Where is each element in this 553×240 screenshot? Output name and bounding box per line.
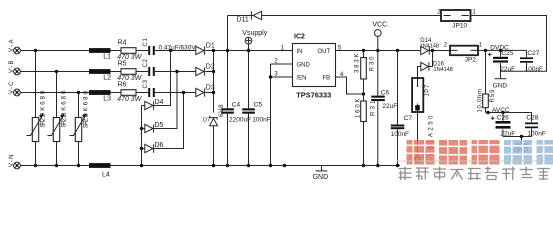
junction join / GND tick xyxy=(520,135,523,138)
junction EN pin riser xyxy=(269,75,272,78)
watermark hairline xyxy=(397,160,553,163)
zener diode D7 6V8 xyxy=(203,104,225,126)
pin 4 FB wire xyxy=(336,77,364,94)
junction row C / D6 riser xyxy=(182,91,185,94)
fuse G1 LS1A250 xyxy=(415,112,435,162)
wire row B after L2 xyxy=(111,71,122,73)
svg-text:V-C: V-C xyxy=(9,81,15,94)
pin 3 /EN line xyxy=(271,76,293,78)
capacitor C6 22uF xyxy=(371,36,397,165)
junction OUT / VCC / C6 xyxy=(376,49,379,52)
svg-text:2200uF: 2200uF xyxy=(229,117,251,124)
junction anode bus / D6 xyxy=(140,147,143,150)
wire varistor R3 riser xyxy=(78,93,80,166)
wire row B xyxy=(20,71,89,73)
capacitor C5 100nF xyxy=(242,101,271,123)
wire C5 riser with Vsupply xyxy=(248,44,250,166)
watermark row2 xyxy=(399,167,550,181)
svg-text:C5: C5 xyxy=(254,101,263,108)
svg-text:Vsupply: Vsupply xyxy=(242,30,267,37)
svg-text:C3: C3 xyxy=(143,79,149,88)
varistor R2 S20K680 xyxy=(48,90,68,142)
svg-text:22uF: 22uF xyxy=(500,66,515,73)
wire ground bus xyxy=(111,165,401,167)
junction ground bus / R31 xyxy=(362,164,365,167)
junction row B / D5 riser xyxy=(175,70,178,73)
watermark row1 xyxy=(407,140,553,165)
svg-text:V-A: V-A xyxy=(9,40,15,53)
svg-text:OUT: OUT xyxy=(318,49,331,55)
svg-text:D11: D11 xyxy=(237,16,249,23)
junction anode bus / D5 xyxy=(140,127,143,130)
junction ground bus / C6 xyxy=(376,164,379,167)
diode D5 xyxy=(142,122,164,133)
wire AVCC xyxy=(486,112,532,114)
svg-text:R4: R4 xyxy=(118,40,127,47)
junction anode bus / ground bus xyxy=(140,164,143,167)
connector pad V-N xyxy=(9,155,20,169)
svg-text:160K: 160K xyxy=(355,99,361,119)
wire row A D1 cathode to IC pin1 IN xyxy=(205,50,292,52)
svg-text:100nF: 100nF xyxy=(252,117,270,124)
junction bus / R1 xyxy=(34,164,37,167)
wire row C after C3 to D3 xyxy=(155,92,196,94)
svg-text:FB: FB xyxy=(323,76,331,82)
diode D3 xyxy=(196,84,215,96)
svg-text:6V8: 6V8 xyxy=(219,104,225,117)
power symbol VCC xyxy=(372,21,387,36)
wire row A after L1 xyxy=(111,50,122,52)
svg-text:1N4148: 1N4148 xyxy=(420,43,440,49)
svg-text:VCC: VCC xyxy=(372,21,387,28)
svg-text:JP7: JP7 xyxy=(425,84,431,97)
connector pad V-A xyxy=(9,40,20,54)
svg-text:1N4148: 1N4148 xyxy=(433,67,453,73)
junction AVCC / C26 xyxy=(501,111,504,114)
svg-text:D1: D1 xyxy=(206,42,215,49)
junction bus / R3 xyxy=(77,164,80,167)
connector pad V-B xyxy=(9,61,20,75)
svg-text:/EN: /EN xyxy=(297,76,307,82)
capacitor C7 100nF xyxy=(391,51,413,166)
wire row A after R4 xyxy=(136,50,148,52)
wire JP2 out / DVDC xyxy=(478,49,527,51)
svg-text:100nF: 100nF xyxy=(525,66,543,73)
capacitor C1 0.47uF/630V xyxy=(143,37,196,55)
svg-text:R59: R59 xyxy=(490,89,496,103)
resistor R4 470 3W xyxy=(117,40,143,61)
connector pad V-C xyxy=(9,81,20,96)
inductor L2 xyxy=(89,69,111,82)
junction cathode bus row C xyxy=(212,91,215,94)
capacitor C27 100nF xyxy=(520,50,543,73)
junction row A / C4 riser xyxy=(226,49,229,52)
svg-text:C1: C1 xyxy=(143,37,149,46)
wire row C xyxy=(20,92,89,94)
svg-text:L3: L3 xyxy=(103,96,111,103)
resistor R30 383K xyxy=(355,51,376,102)
svg-text:22uF: 22uF xyxy=(382,103,397,110)
svg-text:470 3W: 470 3W xyxy=(117,96,143,103)
svg-text:AVCC: AVCC xyxy=(492,107,510,114)
svg-text:C28: C28 xyxy=(526,114,538,121)
svg-text:C2: C2 xyxy=(143,58,149,67)
wire row B D2 cathode to bus xyxy=(205,71,213,73)
ground symbol GND center xyxy=(313,166,329,181)
capacitor C25 22uF xyxy=(488,50,515,78)
varistor R3 S20K680 xyxy=(70,90,90,141)
svg-text:R31: R31 xyxy=(370,100,376,116)
jumper JP2 xyxy=(444,42,483,63)
resistor R31 160K xyxy=(355,99,376,166)
junction row C / R3 xyxy=(77,91,80,94)
junction row A / R1 xyxy=(34,49,37,52)
junction row A / D4 riser xyxy=(169,49,172,52)
wire top rail to JP10 xyxy=(228,15,442,17)
diode D14 1N4148 xyxy=(420,38,450,55)
inductor L4 xyxy=(89,163,111,178)
junction R59 / AVCC xyxy=(486,111,489,114)
svg-text:JP10: JP10 xyxy=(452,23,467,30)
svg-text:10.0hm: 10.0hm xyxy=(478,89,484,113)
junction row A / C5 riser xyxy=(247,49,250,52)
svg-text:GND: GND xyxy=(297,62,311,68)
inductor L1 xyxy=(89,48,111,61)
jumper JP10 xyxy=(437,10,476,30)
svg-text:TPS76333: TPS76333 xyxy=(296,90,331,99)
wire row C after R6 xyxy=(136,92,148,94)
wire C4 riser with top rail xyxy=(227,16,229,166)
wire cathode bus Vsupply xyxy=(213,51,215,166)
svg-text:C4: C4 xyxy=(232,101,241,108)
svg-text:IC2: IC2 xyxy=(294,34,305,41)
svg-text:R5: R5 xyxy=(118,61,127,68)
junction cathode bus row B xyxy=(212,70,215,73)
wire row C D3 cathode to bus xyxy=(205,92,213,94)
svg-text:100nF: 100nF xyxy=(391,131,409,138)
svg-text:C7: C7 xyxy=(404,115,413,122)
junction ground bus / C4 riser xyxy=(226,164,229,167)
junction OUT / C7 xyxy=(396,49,399,52)
svg-text:IN: IN xyxy=(297,49,303,55)
junction cathode bus ground bus xyxy=(212,164,215,167)
svg-text:D7: D7 xyxy=(203,118,210,124)
resistor R59 10.0hm xyxy=(478,50,497,112)
wire varistor R1 riser xyxy=(35,51,37,166)
capacitor C2 xyxy=(143,58,155,76)
wire row N left xyxy=(20,165,89,167)
wire D4 cathode to row A xyxy=(154,51,171,106)
wire D6 cathode to row C xyxy=(154,93,184,149)
junction FB / divider xyxy=(362,92,365,95)
junction ground bus / C5 riser xyxy=(247,164,250,167)
diode D6 xyxy=(142,142,164,153)
diode D4 xyxy=(142,99,164,110)
wire row B after C2 to D2 xyxy=(155,71,196,73)
ground symbol GND AVCC xyxy=(514,137,529,154)
svg-text:0.47uF/630V: 0.47uF/630V xyxy=(159,45,197,52)
pin 5 OUT wire xyxy=(336,50,421,52)
wire varistor R2 riser xyxy=(56,72,58,166)
resistor R6 470 3W xyxy=(117,82,143,103)
wire D5 cathode to row B xyxy=(154,72,177,129)
diode D2 xyxy=(196,63,215,75)
resistor R5 470 3W xyxy=(117,61,143,82)
junction ground bus stray xyxy=(283,164,286,167)
diode D16 1N4148 xyxy=(418,51,453,79)
capacitor C4 2200uF xyxy=(221,101,251,123)
wire row A xyxy=(20,50,89,52)
junction bus / R2 xyxy=(55,164,58,167)
inductor L3 xyxy=(89,90,111,103)
capacitor C28 100nF xyxy=(525,113,546,138)
ground symbol GND DVDC xyxy=(493,79,508,90)
wire JP10 return xyxy=(471,16,547,72)
wire D4-D6 anode bus xyxy=(141,106,143,166)
junction JP2 / R59 xyxy=(484,49,487,52)
svg-text:R6: R6 xyxy=(118,82,127,89)
svg-text:R30: R30 xyxy=(370,56,376,72)
svg-text:C6: C6 xyxy=(381,90,390,97)
op IC2 TPS76333 xyxy=(293,34,336,100)
varistor R1 S20K680 xyxy=(27,90,47,142)
wire GND/EN riser to ground bus xyxy=(270,64,272,166)
svg-text:JP2: JP2 xyxy=(465,57,477,64)
wire C26 C28 join xyxy=(503,136,532,138)
svg-text:L1: L1 xyxy=(103,54,111,61)
diode D11 xyxy=(237,11,262,23)
junction OUT / R30 xyxy=(362,49,365,52)
svg-text:C26: C26 xyxy=(497,114,509,121)
wire row B after R5 xyxy=(136,71,148,73)
svg-text:383K: 383K xyxy=(355,54,361,74)
pin 2 GND line xyxy=(271,63,293,65)
wire row A after C1 to D1 xyxy=(155,50,196,52)
junction D14 / D16 riser xyxy=(431,49,434,52)
junction ground bus / C7 xyxy=(396,164,399,167)
capacitor C3 xyxy=(143,79,155,97)
svg-text:L2: L2 xyxy=(103,75,111,82)
junction DVDC / C25 xyxy=(499,49,502,52)
svg-text:V-N: V-N xyxy=(9,155,15,168)
capacitor C26 22uF xyxy=(491,113,515,138)
junction row B / R2 xyxy=(55,70,58,73)
supply symbol Vsupply xyxy=(242,30,267,44)
svg-text:V-B: V-B xyxy=(9,61,15,74)
wire row C after L3 xyxy=(111,92,122,94)
svg-text:GND: GND xyxy=(313,174,329,181)
junction ground bus / pins riser xyxy=(269,164,272,167)
svg-text:GND: GND xyxy=(493,82,508,89)
svg-text:C25: C25 xyxy=(501,50,513,57)
diode D1 xyxy=(196,42,215,54)
svg-text:C27: C27 xyxy=(527,50,539,57)
svg-text:L4: L4 xyxy=(102,172,110,179)
jumper JP7 xyxy=(412,78,431,112)
junction cathode bus row A xyxy=(212,49,215,52)
